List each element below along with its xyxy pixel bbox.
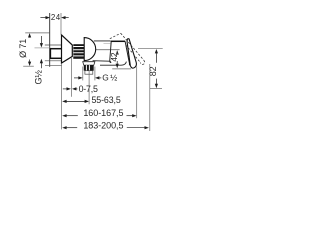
svg-text:183-200,5: 183-200,5 xyxy=(83,120,123,130)
component lever dashed raised position xyxy=(110,33,145,64)
node centerline of body xyxy=(96,49,120,51)
component union nut D-shape xyxy=(84,38,96,61)
svg-text:24: 24 xyxy=(51,13,61,22)
wire neck top edge xyxy=(94,40,111,42)
dimension 82 xyxy=(138,49,163,89)
dimension G1/2 outlet xyxy=(74,67,101,81)
wire box outer bottom line xyxy=(45,60,62,62)
dimension dia 71 xyxy=(23,33,49,66)
component lever handle solid xyxy=(127,39,136,68)
svg-text:Ø 71: Ø 71 xyxy=(18,39,28,58)
wire box outer top line xyxy=(45,44,64,46)
component lever boss trapezoid right edge xyxy=(125,41,129,65)
svg-text:0-7,5: 0-7,5 xyxy=(79,84,98,94)
svg-text:G½: G½ xyxy=(34,70,44,85)
component lever boss trapezoid left edge xyxy=(110,41,111,62)
wire flange line below escutcheon xyxy=(45,65,62,67)
wire neck bottom edge xyxy=(93,61,112,63)
svg-text:55-63,5: 55-63,5 xyxy=(92,95,121,105)
component outlet collar xyxy=(83,62,95,65)
dimension 0-7,5 xyxy=(62,57,78,129)
dimension 42 xyxy=(112,50,131,69)
component outlet thread xyxy=(84,65,94,71)
component wall box xyxy=(50,49,62,59)
dimension G1/2 wall connection leader xyxy=(40,36,43,68)
component lever boss top edge xyxy=(111,40,126,42)
dimension 183-200,5 xyxy=(62,64,150,131)
wire body lower edge xyxy=(100,62,126,66)
svg-text:42: 42 xyxy=(109,52,119,61)
component hose nipple xyxy=(85,71,93,75)
wire neck inner edge xyxy=(104,42,111,44)
wire concealed pipe top xyxy=(35,47,51,49)
component escutcheon cone xyxy=(62,35,73,63)
svg-text:160-167,5: 160-167,5 xyxy=(83,108,123,118)
dimension 55-63,5 xyxy=(62,71,89,104)
wire wall line xyxy=(49,13,51,67)
svg-text:G ½: G ½ xyxy=(102,73,117,83)
svg-text:82: 82 xyxy=(148,66,158,76)
dimension 24 xyxy=(40,13,68,35)
component thread block xyxy=(73,44,84,59)
dimension 160-167,5 xyxy=(62,67,137,119)
